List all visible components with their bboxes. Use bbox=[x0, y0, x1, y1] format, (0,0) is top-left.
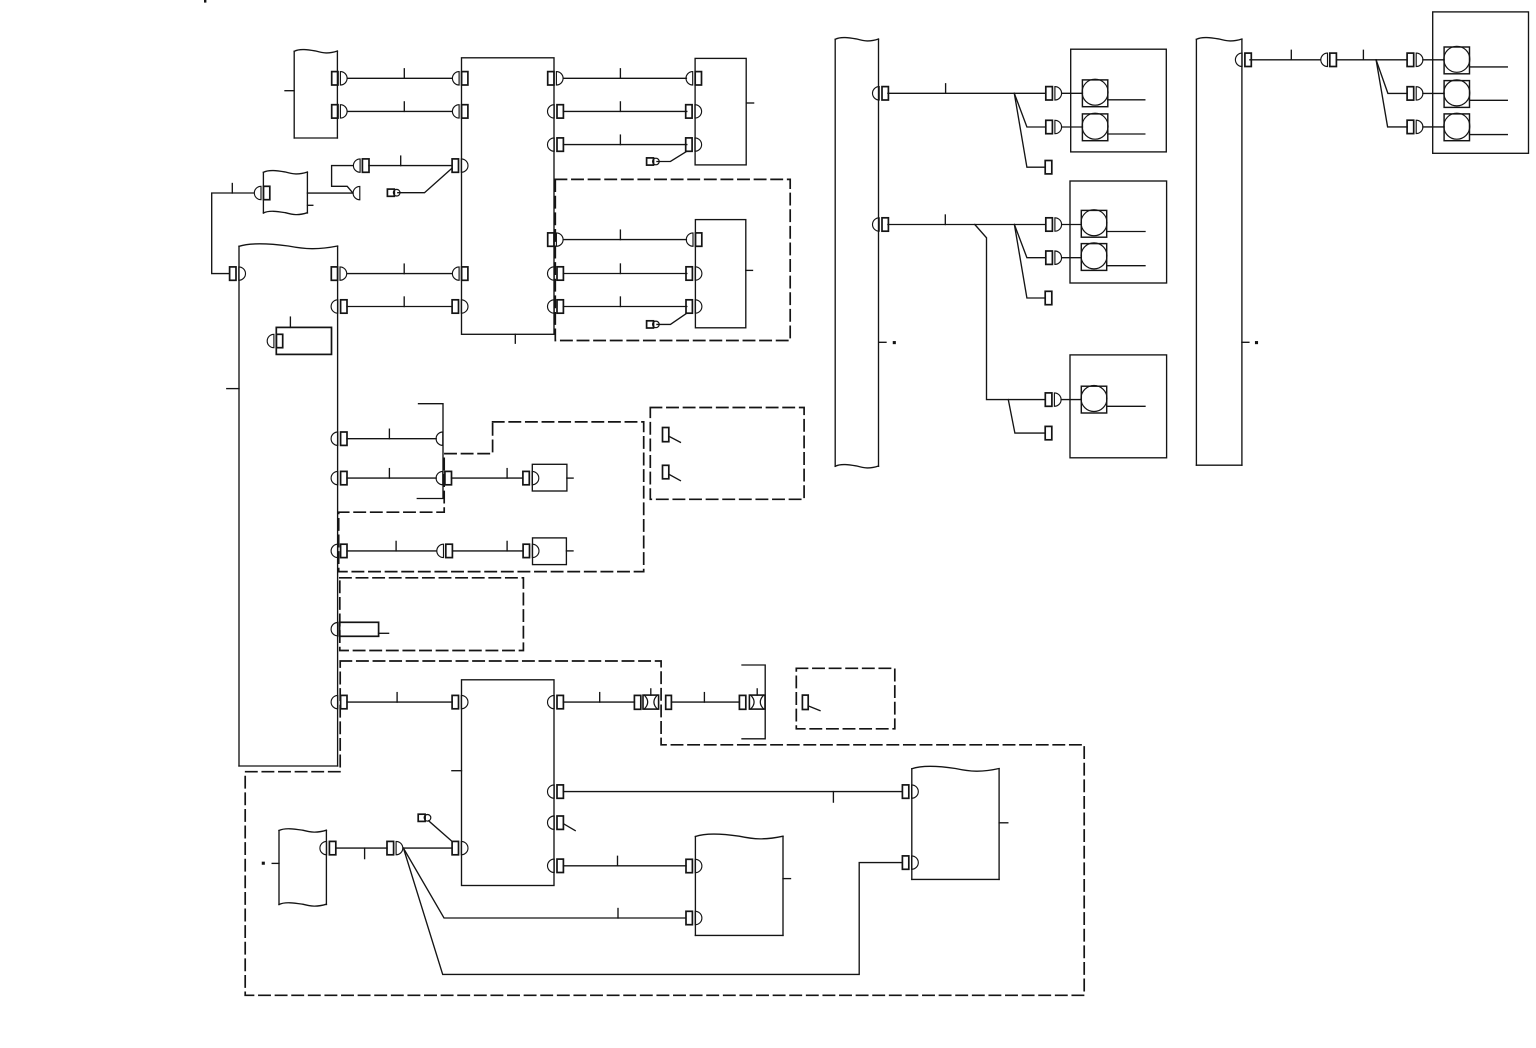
wire to lamp L2a bbox=[1062, 224, 1082, 226]
terminal H2-1 bbox=[1235, 53, 1251, 66]
terminal R2-3 bbox=[686, 300, 702, 313]
dot H1 bbox=[893, 341, 896, 344]
sensor W2 bbox=[263, 171, 312, 215]
terminal B2-2 bbox=[686, 911, 702, 924]
inline connector J4 bbox=[1321, 53, 1337, 66]
lamp unit R2 bbox=[695, 220, 752, 328]
control unit C1 bbox=[462, 58, 555, 343]
relay RY2 bbox=[533, 538, 574, 565]
wire to lamp L3a bbox=[1061, 399, 1081, 401]
terminal C1-4 bbox=[452, 267, 467, 280]
sensor W3 bbox=[272, 829, 326, 906]
junction block B1 bbox=[285, 50, 337, 138]
lamp L4c bbox=[1444, 113, 1470, 141]
terminal H1-1 bbox=[873, 87, 889, 100]
inline connector L4b bbox=[1407, 87, 1423, 100]
dot H2 bbox=[1255, 341, 1258, 344]
inline connector L1a bbox=[1046, 87, 1062, 100]
wire T1-R5 to J2 bbox=[347, 541, 436, 551]
wire to lamp L2b bbox=[1062, 257, 1082, 259]
wire W2 to male end bbox=[307, 192, 353, 194]
lamp L3a bbox=[1081, 386, 1107, 414]
terminal C2-R3 bbox=[548, 816, 576, 831]
terminal T1-R3 bbox=[331, 432, 347, 445]
wire H1-1 branches bbox=[888, 84, 1046, 167]
mark bbox=[204, 0, 206, 3]
joint connector JC2 bbox=[739, 689, 765, 709]
plug P3 bbox=[418, 814, 431, 821]
wire T1-R4 to K0 bbox=[347, 469, 436, 479]
wire to lamp L1a bbox=[1062, 92, 1083, 94]
rect from K0 bbox=[445, 471, 452, 484]
wire T1-R7 to C2 bbox=[347, 693, 452, 703]
wire lamp L4a bbox=[1470, 66, 1508, 68]
wire C2-R4 to B2 bbox=[563, 856, 686, 866]
dashed boundary D2 bbox=[339, 422, 644, 572]
lamp box L1 bbox=[1071, 49, 1167, 152]
terminal T1-R7 bbox=[331, 695, 347, 708]
spare plug D6-1 bbox=[802, 695, 820, 711]
spare connector L1c bbox=[1045, 161, 1052, 174]
terminal T1-R4 bbox=[331, 471, 347, 484]
terminal T1-L bbox=[230, 267, 246, 280]
terminal R2-2 bbox=[686, 267, 702, 280]
terminal R1-2 bbox=[686, 105, 702, 118]
terminal C1-1 bbox=[452, 72, 468, 85]
terminal C1-R6 bbox=[548, 300, 564, 313]
fuse F1 bbox=[340, 622, 389, 636]
wire JC1 to JC2 bbox=[671, 693, 739, 703]
terminal T1-R6 bbox=[331, 623, 338, 636]
module B2 bbox=[695, 834, 790, 935]
dashed boundary D6 bbox=[796, 668, 895, 729]
wire W3 to J3 bbox=[336, 848, 387, 859]
lamp L2b bbox=[1081, 243, 1107, 271]
inline connector L1b bbox=[1046, 120, 1062, 133]
wire P2 to R1-3 bbox=[657, 151, 687, 161]
module B3 bbox=[912, 766, 1008, 879]
relay box T1a bbox=[276, 317, 331, 354]
terminal R1-1 bbox=[686, 72, 702, 85]
lamp unit R1 bbox=[695, 58, 754, 164]
wire loop J1 to M1 bbox=[332, 166, 353, 194]
wire lamp L3a bbox=[1107, 405, 1145, 407]
wire J3 branch 2 bbox=[403, 848, 902, 974]
terminal C1-R3 bbox=[548, 138, 564, 151]
wire J1 to C1-3 bbox=[369, 156, 452, 166]
harness H1 bbox=[835, 38, 886, 468]
terminal W3-R bbox=[320, 841, 336, 854]
wire T1-R3 to K0 bbox=[347, 429, 436, 439]
dot W3 bbox=[262, 862, 265, 865]
wire lamp L4b bbox=[1470, 99, 1508, 101]
wire C1-R2 to R1 bbox=[563, 102, 686, 112]
wire C2-R2 to B3 bbox=[563, 792, 902, 803]
terminal T1-R1 bbox=[331, 267, 346, 280]
joint connector JC1 bbox=[634, 689, 658, 709]
inline connector L4a bbox=[1407, 53, 1423, 66]
wire to lamp L1b bbox=[1062, 126, 1083, 128]
wire lamp L1b bbox=[1108, 133, 1145, 135]
terminal C1-R2 bbox=[548, 105, 564, 118]
male bullet M1 bbox=[353, 186, 360, 199]
terminal C2-L2 bbox=[452, 841, 468, 854]
wire lamp L2b bbox=[1107, 265, 1145, 267]
dashed boundary D4 bbox=[340, 578, 524, 651]
spare plug D3-1 bbox=[663, 428, 681, 443]
terminal C2-R2 bbox=[548, 785, 564, 798]
lamp L1b bbox=[1082, 113, 1108, 141]
terminal C1-2 bbox=[452, 105, 468, 118]
inline connector J2 bbox=[437, 544, 453, 557]
plug P1 bbox=[387, 189, 400, 196]
male bullet into K0 b bbox=[436, 471, 443, 484]
wire B1-2 to C1-2 bbox=[348, 102, 452, 112]
terminal C1-5 bbox=[452, 300, 468, 313]
terminal B3-1 bbox=[902, 785, 918, 798]
terminal T1-R2 bbox=[331, 300, 347, 313]
wire C1-R5 to R2 bbox=[563, 264, 686, 274]
lamp L1a bbox=[1082, 79, 1108, 107]
wire T1-R2 to C1 bbox=[347, 297, 452, 307]
rect after JC1 bbox=[666, 695, 672, 709]
dashed boundary D1 bbox=[555, 179, 790, 340]
wire W2 to T1 bbox=[212, 184, 254, 274]
terminal RY1 bbox=[523, 471, 539, 484]
terminal T1-R5 bbox=[331, 544, 347, 557]
wire P3 to C2-L2 bbox=[429, 821, 453, 842]
lamp box L2 bbox=[1070, 181, 1167, 283]
inline connector L4c bbox=[1407, 120, 1423, 133]
wire C1-R1 to R1 bbox=[564, 69, 687, 79]
inline connector L2a bbox=[1046, 218, 1062, 231]
terminal B3-2 bbox=[902, 856, 918, 869]
terminal C1-3 bbox=[452, 159, 468, 172]
wire lamp L1a bbox=[1108, 99, 1145, 101]
wire J3 branch 1 bbox=[403, 848, 685, 918]
wire H1-2 branches bbox=[888, 215, 1046, 433]
terminal B2-1 bbox=[686, 859, 702, 872]
wire C2-R1 to JC1 bbox=[563, 693, 634, 703]
wire J4 branches bbox=[1336, 50, 1407, 127]
lamp L2a bbox=[1081, 210, 1107, 238]
wire to lamp L4a bbox=[1423, 59, 1444, 61]
wire lamp L2a bbox=[1107, 231, 1145, 233]
wire J3 to C2-L2 bbox=[403, 847, 452, 849]
lamp box L3 bbox=[1070, 355, 1167, 458]
spare plug D3-2 bbox=[663, 465, 681, 480]
wire lamp L4c bbox=[1470, 134, 1508, 136]
relay RY1 bbox=[532, 464, 573, 491]
inline connector L3a bbox=[1045, 393, 1061, 406]
terminal W2-L bbox=[254, 186, 269, 199]
wire P1 to C1-3 bbox=[398, 168, 452, 193]
lamp L4b bbox=[1444, 80, 1470, 107]
wire J2 to relay RY2 bbox=[452, 541, 522, 551]
wire C1-R6 to R2 bbox=[563, 297, 686, 307]
wire P2b to R2-3 bbox=[657, 313, 687, 324]
spare connector L3c bbox=[1045, 426, 1052, 439]
inline connector J3 bbox=[387, 841, 403, 854]
control unit C2 bbox=[452, 680, 554, 886]
lamp box L4 bbox=[1433, 12, 1529, 153]
plug P2b bbox=[647, 321, 660, 328]
terminal C1-R5 bbox=[548, 267, 564, 280]
terminal R2-1 bbox=[686, 233, 701, 246]
terminal T1a-L bbox=[267, 334, 283, 347]
terminal H1-2 bbox=[873, 218, 889, 231]
terminal R1-3 bbox=[686, 138, 702, 151]
terminal RY2 bbox=[523, 544, 539, 557]
terminal C2-L1 bbox=[452, 695, 468, 708]
wire B1-1 to C1-1 bbox=[348, 69, 452, 79]
harness H2 bbox=[1196, 38, 1249, 466]
terminal C1-R1 bbox=[548, 72, 563, 85]
terminal B1-2 bbox=[332, 105, 347, 118]
wire T1-R1 to C1 bbox=[348, 264, 453, 274]
wire H2 to J4 bbox=[1250, 50, 1320, 60]
connector face K1 bbox=[742, 665, 765, 739]
terminal B1-1 bbox=[332, 72, 347, 85]
terminal C2-R4 bbox=[548, 859, 564, 872]
connector face K0 bbox=[417, 404, 443, 499]
wire C1-R3 to R1 bbox=[563, 135, 686, 145]
dashed boundary D3 bbox=[650, 408, 804, 500]
dashed boundary D5 bbox=[245, 661, 1084, 995]
terminal C1-R4 bbox=[548, 233, 563, 246]
inline connector J1 bbox=[353, 159, 369, 172]
wire to lamp L4c bbox=[1423, 126, 1444, 128]
male bullet into K0 bbox=[436, 432, 443, 445]
inline connector L2b bbox=[1046, 251, 1062, 264]
lamp L4a bbox=[1444, 46, 1470, 74]
wire to lamp L4b bbox=[1423, 92, 1444, 94]
junction block T1 bbox=[227, 244, 338, 766]
plug P2 bbox=[647, 158, 660, 165]
terminal C2-R1 bbox=[548, 695, 564, 708]
wire C1-R4 to R2 bbox=[564, 230, 687, 240]
wire K0 to relay RY1 bbox=[452, 469, 523, 479]
spare connector L2c bbox=[1045, 291, 1052, 304]
